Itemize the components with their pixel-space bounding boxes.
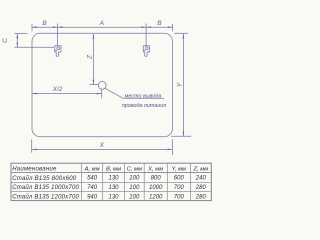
arrow Y top bbox=[183, 34, 185, 39]
svg-text:1200: 1200 bbox=[149, 194, 163, 200]
ext line right edge bbox=[172, 24, 174, 31]
svg-text:место вывода: место вывода bbox=[125, 94, 162, 100]
arrow top-right out bbox=[168, 26, 173, 28]
arrow C top bbox=[17, 34, 19, 39]
wire exit circle bbox=[98, 82, 106, 90]
arrow bracket1 right bbox=[58, 26, 63, 28]
Z dim line bbox=[92, 34, 94, 84]
table grid bbox=[11, 163, 211, 200]
svg-text:B: B bbox=[42, 20, 47, 27]
X/2 dim line bbox=[32, 93, 101, 95]
svg-text:280: 280 bbox=[195, 194, 207, 200]
svg-text:130: 130 bbox=[108, 194, 119, 200]
table row 1 bbox=[12, 175, 206, 182]
svg-text:280: 280 bbox=[195, 185, 207, 191]
top dim line bbox=[32, 26, 173, 28]
leader line bbox=[105, 88, 164, 98]
X dim line bbox=[32, 148, 172, 150]
arrow Z top bbox=[93, 34, 95, 39]
svg-text:C: C bbox=[2, 38, 9, 43]
Y dim ext top bbox=[174, 32, 188, 34]
svg-text:X, мм: X, мм bbox=[147, 166, 163, 172]
svg-text:провода питания: провода питания bbox=[122, 103, 166, 109]
svg-text:740: 740 bbox=[87, 185, 98, 191]
svg-text:130: 130 bbox=[108, 185, 119, 191]
Y dim ext bottom bbox=[171, 135, 191, 137]
svg-text:700: 700 bbox=[174, 185, 185, 191]
svg-text:100: 100 bbox=[129, 176, 140, 182]
mirror outline bbox=[32, 33, 172, 136]
svg-text:Y: Y bbox=[177, 82, 184, 87]
C dim ext bottom bbox=[15, 46, 55, 48]
svg-text:540: 540 bbox=[87, 176, 98, 182]
arrow X/2 right bbox=[97, 93, 102, 95]
ext line bracket2 bbox=[145, 24, 147, 46]
svg-text:100: 100 bbox=[129, 185, 140, 191]
arrow Y bottom bbox=[183, 131, 185, 136]
svg-text:1000: 1000 bbox=[149, 185, 163, 191]
table row 2 bbox=[12, 184, 206, 191]
C dim line bbox=[16, 34, 18, 48]
svg-text:А, мм: А, мм bbox=[84, 166, 100, 172]
svg-text:130: 130 bbox=[108, 176, 119, 182]
svg-text:Стайл В135 800х600: Стайл В135 800х600 bbox=[12, 175, 77, 182]
point vertical line bbox=[101, 90, 103, 99]
arrow top-left out bbox=[32, 26, 37, 28]
Z point level line bbox=[90, 84, 99, 86]
svg-text:700: 700 bbox=[174, 194, 185, 200]
svg-text:100: 100 bbox=[129, 194, 140, 200]
C dim ext top bbox=[15, 33, 28, 35]
svg-text:940: 940 bbox=[87, 194, 98, 200]
svg-text:Z, мм: Z, мм bbox=[192, 166, 208, 172]
table header text bbox=[12, 166, 208, 172]
ext line bracket1 bbox=[57, 24, 59, 46]
bracket 1 bbox=[55, 46, 61, 57]
arrow bracket1 left bbox=[53, 26, 58, 28]
svg-text:X/2: X/2 bbox=[52, 86, 63, 93]
X dim ext left bbox=[31, 139, 33, 152]
svg-text:Стайл В135 1000х700: Стайл В135 1000х700 bbox=[12, 184, 79, 191]
svg-text:В, мм: В, мм bbox=[106, 166, 121, 172]
arrow bracket2 right bbox=[146, 26, 151, 28]
arrow X left bbox=[32, 149, 37, 151]
arrow C bottom bbox=[17, 43, 19, 48]
svg-text:800: 800 bbox=[151, 176, 162, 182]
svg-text:С, мм: С, мм bbox=[127, 166, 142, 172]
svg-text:Наименование: Наименование bbox=[12, 166, 57, 172]
arrow X/2 left bbox=[32, 93, 37, 95]
svg-text:Y, мм: Y, мм bbox=[172, 166, 187, 172]
svg-text:B: B bbox=[157, 20, 162, 27]
svg-text:Стайл В135 1200х700: Стайл В135 1200х700 bbox=[12, 194, 79, 201]
arrow Z bottom bbox=[93, 80, 95, 85]
ext line left edge bbox=[31, 24, 33, 31]
svg-text:A: A bbox=[99, 20, 104, 27]
X dim ext right bbox=[171, 139, 173, 155]
svg-text:X: X bbox=[99, 142, 105, 149]
arrow X right bbox=[168, 149, 173, 151]
Y dim line bbox=[182, 34, 184, 137]
arrow bracket2 left bbox=[141, 26, 146, 28]
table row 3 bbox=[12, 194, 206, 201]
bracket 2 bbox=[143, 46, 149, 57]
svg-text:600: 600 bbox=[174, 176, 185, 182]
svg-text:240: 240 bbox=[195, 176, 207, 182]
